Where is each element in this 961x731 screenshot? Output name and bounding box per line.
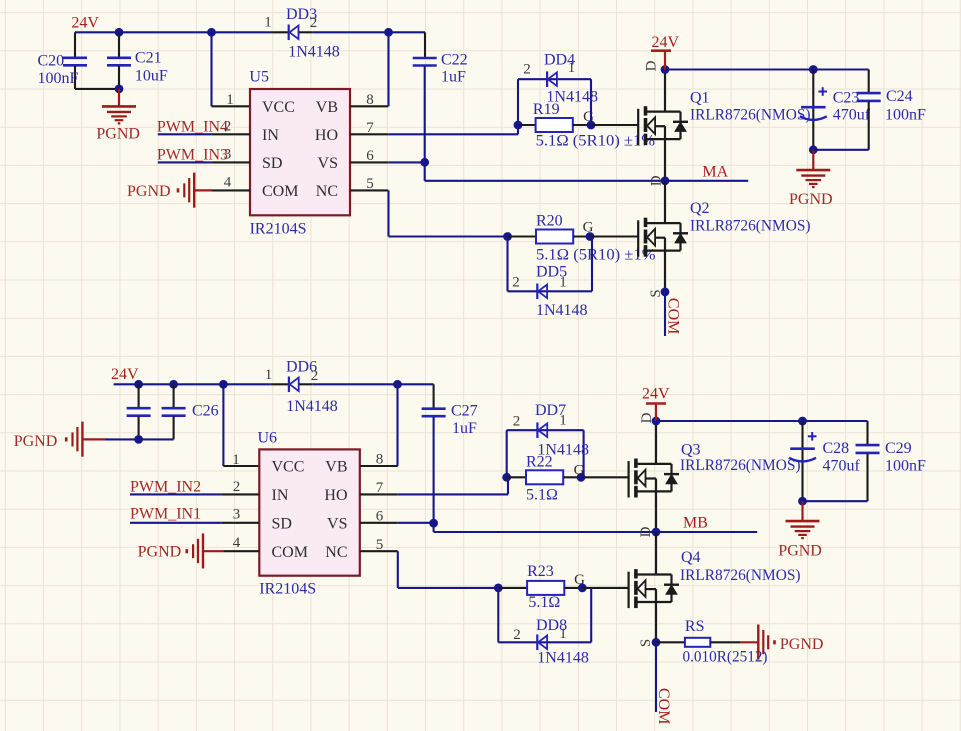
wire C22 to VS (424, 66, 426, 162)
value 5.1 ohm (R23) (528, 594, 560, 611)
junction Q3 drain / 24V rail (bottom) (652, 417, 661, 426)
capacitor C24 100nF (857, 70, 881, 150)
pin name HO (U5) (315, 127, 338, 144)
svg-text:IR2104S: IR2104S (250, 221, 307, 238)
label PGND (U5 COM) (127, 183, 171, 200)
wire PGND to COM (U6) (203, 550, 223, 552)
wire VB to bootstrap (U6) (396, 384, 398, 466)
wire 24V rail (75, 31, 270, 33)
junction MA / Q1 source / Q2 drain (661, 176, 670, 185)
svg-text:IRLR8726(NMOS): IRLR8726(NMOS) (680, 567, 801, 584)
wire DD7 top (507, 429, 584, 431)
pin label G (Q2 gate) (583, 220, 594, 236)
transistor Q2 IRLR8726 NMOS (638, 181, 688, 292)
pin 7 stub (U6) (360, 493, 398, 495)
pin number 3 (U6 SD) (233, 507, 241, 523)
svg-text:VCC: VCC (262, 99, 295, 116)
wire R19 right pin (573, 124, 591, 126)
junction Q4 source / RS / COM (652, 638, 661, 647)
wire to Q2 gate (590, 235, 638, 237)
pin number 2 of DD7 (513, 414, 521, 430)
designator Q3 (681, 442, 701, 459)
wire rail to C27 (313, 383, 434, 385)
junction 24V/VCC branch (207, 28, 216, 37)
svg-text:1N4148: 1N4148 (536, 302, 588, 319)
svg-text:PWM_IN3: PWM_IN3 (157, 147, 228, 164)
junction rail/C28 (798, 417, 807, 426)
pin name VS (U6) (327, 515, 347, 532)
svg-text:PGND: PGND (138, 544, 182, 561)
junction 24V/C21 (115, 28, 124, 37)
junction R20/DD5 right (586, 232, 595, 241)
pin label D (Q1 drain) (644, 60, 660, 71)
svg-text:1: 1 (559, 275, 567, 291)
wire DD5 right vertical (591, 237, 593, 292)
pin label D (Q4 drain) (638, 526, 654, 537)
diode DD6 (289, 377, 299, 393)
capacitor C28 470uF (789, 421, 817, 501)
junction rail/VB (U6) (393, 380, 402, 389)
wire VCC branch vertical (U6) (222, 384, 224, 466)
pin label G (Q1 gate) (583, 109, 594, 125)
svg-text:IN: IN (272, 487, 289, 504)
svg-text:470uf: 470uf (823, 458, 861, 475)
junction rail/VB (384, 28, 393, 37)
wire net PWM_IN3 (158, 161, 212, 163)
pin number 5 (U5) (366, 176, 374, 192)
svg-text:IRLR8726(NMOS): IRLR8726(NMOS) (690, 218, 811, 235)
pin label D (Q2 drain) (649, 175, 665, 186)
svg-text:C22: C22 (441, 52, 468, 69)
svg-text:IRLR8726(NMOS): IRLR8726(NMOS) (680, 457, 801, 474)
designator Q2 (690, 200, 710, 217)
pin name IN (U5) (262, 127, 279, 144)
value 1N4148 (DD4) (546, 89, 598, 106)
junction 24V/VCC branch (U6) (219, 380, 228, 389)
pin number 3 (U5 SD) (224, 147, 232, 163)
wire DD8 bottom (498, 641, 591, 643)
pin number 8 (U5) (366, 92, 374, 108)
transistor Q3 IRLR8726 NMOS (629, 421, 679, 532)
wire R20 left pin (508, 235, 537, 237)
wire VB to bootstrap diode (387, 32, 389, 106)
svg-text:C21: C21 (135, 50, 162, 67)
wire cap bottom (bottom circuit) (105, 438, 174, 440)
svg-text:C23: C23 (833, 90, 860, 107)
part name IRLR8726(NMOS) (Q1) (690, 106, 811, 123)
svg-text:PWM_IN2: PWM_IN2 (130, 479, 201, 496)
svg-text:G: G (574, 572, 585, 588)
resistor R20 (536, 230, 573, 244)
svg-text:1: 1 (265, 367, 273, 383)
pin number 2 (U6 IN) (233, 479, 241, 495)
wire diode DD6 pin 2 (299, 383, 313, 385)
capacitor C20 (63, 32, 87, 89)
capacitor C23 470uF (800, 70, 827, 150)
pin 3 SD stub (U6) (221, 522, 259, 524)
value 1uF (C22) (441, 69, 466, 86)
net label PWM_IN3 (157, 147, 228, 164)
svg-text:PGND: PGND (127, 183, 171, 200)
resistor RS (685, 638, 710, 647)
value 1N4148 (DD8) (537, 650, 589, 667)
wire to Q1 gate (591, 124, 638, 126)
svg-text:IRLR8726(NMOS): IRLR8726(NMOS) (690, 106, 811, 123)
net label PWM_IN1 (130, 506, 201, 523)
wire VS pin to node (U6) (398, 522, 434, 524)
wire to Q4 gate (582, 587, 628, 589)
svg-text:1: 1 (559, 413, 567, 429)
svg-text:24V: 24V (111, 366, 139, 383)
diode DD4 (547, 71, 557, 87)
wire DD7 right vertical (583, 430, 585, 477)
svg-text:2: 2 (523, 62, 531, 78)
svg-text:6: 6 (376, 509, 384, 525)
wire C27 to VS (U6) (433, 417, 435, 523)
wire DD5 left vertical (506, 237, 508, 292)
designator R20 (536, 213, 563, 230)
svg-text:PWM_IN4: PWM_IN4 (157, 119, 228, 136)
junction C23 bottom / ground (809, 145, 818, 154)
pin 4 COM stub (U6) (223, 550, 259, 552)
junction R23 right (578, 584, 587, 593)
pin 6 stub (U5) (350, 161, 388, 163)
resistor R23 (527, 581, 564, 595)
value 1N4148 (DD6) (286, 398, 338, 415)
ground symbol (PGND, right of Q3) (786, 521, 820, 538)
svg-text:2: 2 (233, 479, 241, 495)
svg-text:SD: SD (272, 515, 292, 532)
value 0.010R(2512) (RS) (683, 649, 768, 666)
wire diode DD3 pin 2 (299, 31, 313, 33)
pin 1 VCC stub (U5) (212, 105, 251, 107)
svg-text:C24: C24 (886, 88, 913, 105)
svg-text:Q1: Q1 (690, 90, 710, 107)
label PGND (U6 COM) (138, 544, 182, 561)
svg-text:G: G (583, 220, 594, 236)
svg-text:24V: 24V (642, 386, 670, 403)
junction R20/DD5 left (503, 232, 512, 241)
pin number 2 of DD3 (310, 15, 318, 31)
power ground symbol (right of RS) (758, 625, 774, 660)
wire LO down (U6) (397, 551, 399, 588)
svg-text:2: 2 (224, 119, 232, 135)
pin 1 VCC stub (U6) (223, 465, 259, 467)
svg-text:7: 7 (376, 480, 384, 496)
wire RS right pin (710, 641, 740, 643)
junction Q2 source / COM (661, 288, 670, 297)
svg-text:24V: 24V (71, 15, 99, 32)
svg-text:7: 7 (366, 120, 374, 136)
svg-text:COM: COM (655, 688, 672, 724)
pin name IN (U6) (272, 487, 289, 504)
pin name VB (U6) (325, 459, 347, 476)
designator C29 (885, 440, 912, 457)
net label PWM_IN2 (130, 479, 201, 496)
svg-text:NC: NC (316, 183, 338, 200)
svg-text:100nF: 100nF (38, 70, 79, 87)
designator DD4 (544, 52, 575, 69)
pin number 1 (U5 VCC) (226, 92, 234, 108)
designator DD8 (536, 617, 567, 634)
pin number 1 of DD6 (265, 367, 273, 383)
pin 5 stub (U6) (360, 550, 398, 552)
designator C22 (441, 52, 468, 69)
svg-text:2: 2 (513, 627, 521, 643)
svg-text:VS: VS (318, 155, 338, 172)
wire net COM (top half) (664, 292, 666, 336)
power ground symbol (U5 COM) (178, 173, 194, 208)
diode DD3 (289, 25, 299, 41)
capacitor C27 (422, 384, 446, 416)
junction VS/C27 (429, 519, 438, 528)
value 100nF (C24) (885, 107, 926, 124)
wire to ground (bottom right) (801, 501, 803, 520)
pin name VCC (U6) (272, 459, 305, 476)
designator DD5 (536, 264, 567, 281)
pin name SD (U6) (272, 515, 292, 532)
pin number 1 of DD5 (559, 275, 567, 291)
value 1uF (C27) (452, 420, 477, 437)
pin number 4 (U6 COM) (233, 535, 241, 551)
resistor R22 (526, 470, 563, 484)
designator C28 (823, 440, 850, 457)
value 5.1 ohm (R20) (536, 247, 656, 264)
wire DD4 right vertical (590, 79, 592, 125)
svg-text:6: 6 (366, 148, 374, 164)
ground symbol (PGND earth, top-left) (102, 106, 136, 123)
svg-text:Q4: Q4 (681, 549, 701, 566)
net label PWM_IN4 (157, 119, 228, 136)
pin label G (Q3 gate) (574, 463, 585, 479)
pin name SD (U5) (262, 155, 282, 172)
wire HO corner up (517, 125, 519, 134)
svg-text:1uF: 1uF (441, 69, 466, 86)
svg-text:1: 1 (232, 452, 240, 468)
svg-text:1: 1 (264, 15, 272, 31)
power symbol 24V (Q1 drain) (651, 51, 671, 70)
junction R19/DD4 right (587, 121, 596, 130)
svg-text:8: 8 (366, 92, 374, 108)
svg-text:100nF: 100nF (885, 107, 926, 124)
junction rail/C26 (169, 380, 178, 389)
wire R19 left pin (518, 124, 536, 126)
svg-text:2: 2 (513, 414, 521, 430)
pin number 4 (U5 COM) (224, 175, 232, 191)
svg-text:D: D (649, 175, 665, 186)
pin number 1 of DD7 (559, 413, 567, 429)
net label COM (bottom half) (655, 688, 672, 724)
power label 24V (Q1) (652, 34, 680, 51)
value 1N4148 (DD7) (537, 442, 589, 459)
wire rail to C22 (313, 31, 425, 33)
junction C28 bottom / ground (798, 497, 807, 506)
svg-text:1N4148: 1N4148 (286, 398, 338, 415)
svg-text:1N4148: 1N4148 (288, 44, 340, 61)
pin 3 SD stub (U5) (212, 161, 250, 163)
junction Q1 drain / 24V rail (661, 65, 670, 74)
op-amp driver U5 IR2104S body (250, 89, 350, 215)
designator RS (685, 618, 705, 635)
svg-text:MB: MB (683, 515, 708, 532)
wire VS pin to node (388, 161, 424, 163)
diode DD8 (537, 635, 547, 651)
svg-text:C20: C20 (38, 53, 65, 70)
capacitor C29 100nF (856, 421, 880, 501)
wire net PWM_IN1 (130, 522, 221, 524)
wire VS down (424, 162, 426, 181)
label PGND (top-left) (96, 126, 140, 143)
power ground symbol (U6 COM) (187, 533, 203, 568)
svg-text:PGND: PGND (780, 636, 824, 653)
designator C21 (135, 50, 162, 67)
designator U5 (249, 69, 269, 86)
net label COM (top half) (665, 298, 682, 334)
pin 7 stub (U5) (350, 133, 388, 135)
junction R23/DD8 left (494, 584, 503, 593)
svg-text:COM: COM (272, 544, 308, 561)
designator C20 (38, 53, 65, 70)
diode DD7 (537, 422, 547, 438)
label PGND (right top) (789, 191, 833, 208)
svg-text:PGND: PGND (96, 126, 140, 143)
power symbol 24V (Q3 drain) (646, 404, 666, 422)
pin number 6 (U5) (366, 148, 374, 164)
designator C26 (192, 403, 219, 420)
wire LO to R20 (389, 235, 508, 237)
svg-text:3: 3 (224, 147, 232, 163)
pin 2 IN stub (U6) (221, 493, 259, 495)
svg-text:5: 5 (376, 537, 384, 553)
wire HO corner up (U6) (507, 477, 509, 494)
junction cap bottom / ground (115, 85, 124, 94)
capacitor C21 (107, 32, 131, 89)
wire C20/C21 bottom (75, 88, 119, 90)
pin 4 COM stub (U5) (212, 189, 250, 191)
wire diode DD3 pin 1 (270, 31, 288, 33)
capacitor C22 (413, 32, 437, 65)
svg-text:8: 8 (376, 452, 384, 468)
wire R22 right pin (563, 476, 581, 478)
capacitor (C26 left unit) (127, 384, 151, 439)
value 470uf (C28) (823, 458, 861, 475)
value 10uF (C21) (135, 68, 168, 85)
value 1N4148 (DD5) (536, 302, 588, 319)
wire LO to R23 (398, 587, 499, 589)
part name IRLR8726(NMOS) (Q3) (680, 457, 801, 474)
part name IRLR8726(NMOS) (Q2) (690, 218, 811, 235)
pin number 2 of DD8 (513, 627, 521, 643)
svg-text:COM: COM (262, 183, 298, 200)
label PGND (right bottom) (778, 543, 822, 560)
wire DD8 left vertical (497, 588, 499, 642)
value 100nF (C29) (885, 458, 926, 475)
svg-text:HO: HO (315, 127, 338, 144)
power label 24V (top-left) (71, 15, 99, 32)
wire PGND bar to caps (82, 438, 105, 440)
pin name COM (U5) (262, 183, 298, 200)
svg-text:PGND: PGND (789, 191, 833, 208)
pin name COM (U6) (272, 544, 308, 561)
svg-text:2: 2 (512, 275, 520, 291)
svg-text:Q2: Q2 (690, 200, 710, 217)
svg-text:COM: COM (665, 298, 682, 334)
op-amp driver U6 IR2104S body (259, 449, 360, 575)
wire RS left pin (656, 641, 685, 643)
svg-text:PWM_IN1: PWM_IN1 (130, 506, 201, 523)
svg-text:C28: C28 (823, 440, 850, 457)
pin number 7 (U5) (366, 120, 374, 136)
svg-text:1N4148: 1N4148 (537, 442, 589, 459)
wire net COM (bottom half) (655, 642, 657, 712)
svg-text:PGND: PGND (14, 433, 58, 450)
wire net PWM_IN2 (130, 493, 221, 495)
svg-text:5.1Ω: 5.1Ω (528, 594, 560, 611)
svg-text:S: S (638, 639, 654, 647)
svg-text:G: G (583, 109, 594, 125)
pin label G (Q4 gate) (574, 572, 585, 588)
transistor Q1 IRLR8726 NMOS (638, 70, 688, 181)
designator DD3 (286, 6, 317, 23)
wire R23 right pin (564, 587, 582, 589)
designator Q1 (690, 90, 710, 107)
svg-text:1N4148: 1N4148 (537, 650, 589, 667)
value 5.1 ohm (R19) (536, 132, 656, 149)
designator U6 (258, 430, 278, 447)
junction cap A bottom (134, 435, 143, 444)
svg-text:1: 1 (226, 92, 234, 108)
designator Q4 (681, 549, 701, 566)
svg-text:VS: VS (327, 515, 347, 532)
net label MB (683, 515, 708, 532)
wire VS down (U6) (433, 523, 435, 532)
pin number 2 of DD4 (523, 62, 531, 78)
pin number 5 (U6) (376, 537, 384, 553)
svg-text:0.010R(2512): 0.010R(2512) (683, 649, 768, 666)
junction VS/C22 (420, 158, 429, 167)
svg-text:2: 2 (311, 368, 319, 384)
designator DD7 (535, 402, 566, 419)
designator C27 (451, 403, 478, 420)
svg-text:NC: NC (325, 544, 347, 561)
wire to ground (right) (812, 150, 814, 170)
pin name VS (U5) (318, 155, 338, 172)
wire R22 left pin (507, 476, 526, 478)
pin name NC (U6) (325, 544, 347, 561)
pin number 8 (U6) (376, 452, 384, 468)
svg-text:Q3: Q3 (681, 442, 701, 459)
designator R23 (527, 563, 554, 580)
svg-text:1: 1 (559, 626, 567, 642)
wire DD5 bottom (508, 290, 593, 292)
designator C24 (886, 88, 913, 105)
pin 2 IN stub (U5) (212, 133, 250, 135)
wire to ground (118, 89, 120, 106)
wire R23 left pin (498, 587, 527, 589)
svg-text:PGND: PGND (778, 543, 822, 560)
power label 24V (bottom-left) (111, 366, 139, 383)
pin label S (Q4 source) (638, 639, 654, 647)
pin number 2 of DD6 (311, 368, 319, 384)
wire DD7 left vertical (506, 430, 508, 477)
wire PGND to COM (194, 189, 211, 191)
wire 24V rail to C28/C29 (656, 420, 868, 422)
part name IRLR8726(NMOS) (Q4) (680, 567, 801, 584)
wire LO down (387, 190, 389, 236)
svg-text:VCC: VCC (272, 459, 305, 476)
value 470uf (C23) (833, 107, 871, 124)
svg-text:5: 5 (366, 176, 374, 192)
